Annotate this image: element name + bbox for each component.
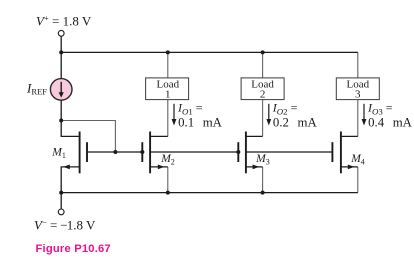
svg-text:IREF: IREF bbox=[26, 81, 47, 97]
svg-text:M2: M2 bbox=[160, 153, 175, 167]
svg-text:0.2mA: 0.2mA bbox=[273, 115, 318, 129]
svg-text:Figure P10.67: Figure P10.67 bbox=[36, 243, 111, 255]
svg-text:IO1=: IO1= bbox=[177, 100, 203, 116]
svg-text:1: 1 bbox=[165, 89, 171, 101]
svg-text:M1: M1 bbox=[51, 146, 66, 160]
svg-text:2: 2 bbox=[260, 89, 266, 101]
svg-text:0.1mA: 0.1mA bbox=[178, 115, 223, 129]
svg-text:3: 3 bbox=[355, 89, 361, 101]
svg-text:0.4mA: 0.4mA bbox=[368, 115, 413, 129]
svg-text:M3: M3 bbox=[255, 153, 270, 167]
svg-text:V+ = 1.8 V: V+ = 1.8 V bbox=[36, 13, 92, 28]
svg-text:IO3=: IO3= bbox=[367, 100, 393, 116]
svg-text:V− = −1.8 V: V− = −1.8 V bbox=[34, 217, 96, 232]
svg-text:M4: M4 bbox=[350, 153, 365, 167]
svg-text:IO2=: IO2= bbox=[272, 100, 298, 116]
